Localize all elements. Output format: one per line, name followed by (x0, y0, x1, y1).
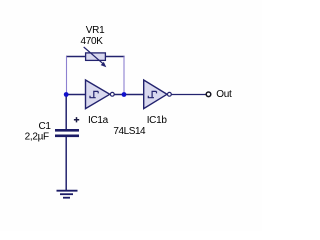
op-amp IC1b inverter triangle (144, 80, 167, 109)
svg-text:C1: C1 (39, 121, 52, 132)
wire feedback left vertical leg (66, 56, 68, 93)
wire node to capacitor top (65, 95, 67, 130)
wire feedback right vertical leg (123, 56, 125, 93)
node junction dot at IC1a input (64, 92, 69, 97)
potentiometer VR1 body (86, 53, 106, 61)
svg-text:IC1b: IC1b (147, 115, 168, 126)
capacitor C1 top plate (55, 129, 79, 132)
node junction dot at IC1a output (122, 92, 127, 97)
capacitor C1 bottom plate (55, 135, 79, 138)
wire IC1b output to terminal (171, 94, 206, 96)
IC1a output bubble (110, 92, 114, 96)
op-amp IC1a inverter triangle (86, 80, 110, 109)
IC1a hysteresis symbol (90, 91, 98, 97)
svg-text:IC1a: IC1a (88, 115, 109, 126)
potentiometer VR1 wiper arrow (84, 47, 107, 67)
ground (57, 191, 78, 198)
wire IC1a input (66, 94, 87, 96)
wire IC1a output to IC1b input (114, 94, 144, 96)
svg-text:VR1: VR1 (86, 25, 105, 36)
capacitor C1 polarity plus (74, 117, 79, 122)
svg-text:2,2µF: 2,2µF (25, 132, 49, 143)
svg-text:470K: 470K (81, 36, 104, 47)
output terminal (206, 92, 211, 97)
IC1b output bubble (168, 92, 172, 96)
svg-text:Out: Out (216, 89, 232, 100)
wire top rail right segment (105, 56, 124, 58)
IC1b hysteresis symbol (148, 91, 156, 97)
wire capacitor bottom to ground (65, 137, 67, 190)
wire top rail left segment (66, 56, 86, 58)
svg-text:74LS14: 74LS14 (113, 126, 146, 137)
